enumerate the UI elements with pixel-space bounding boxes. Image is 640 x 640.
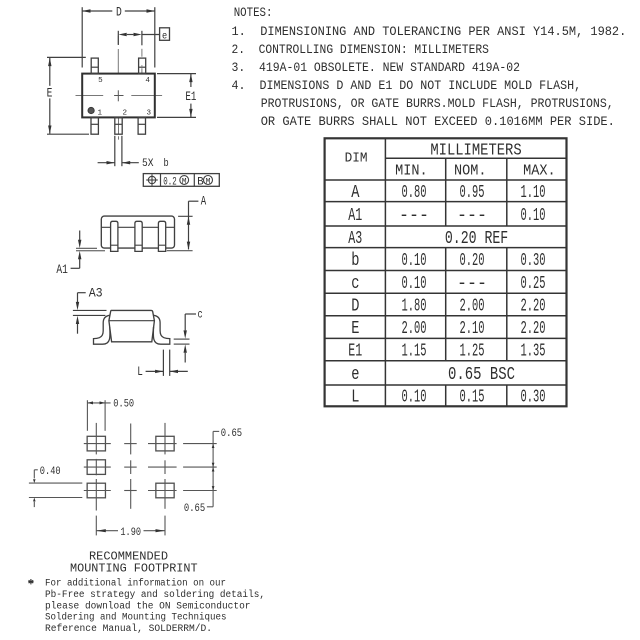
svg-text:1.25: 1.25 [460, 342, 485, 362]
svg-text:1.80: 1.80 [402, 297, 427, 317]
svg-text:---: --- [457, 206, 487, 226]
svg-text:1: 1 [98, 110, 103, 118]
svg-text:0.95: 0.95 [460, 183, 485, 203]
svg-text:3: 3 [147, 110, 152, 118]
svg-text:2.20: 2.20 [521, 297, 546, 317]
svg-text:2.00: 2.00 [402, 319, 427, 339]
svg-text:5: 5 [98, 77, 103, 85]
svg-text:DIM: DIM [345, 151, 368, 166]
svg-text:D: D [116, 6, 122, 20]
svg-text:NOTES:: NOTES: [234, 6, 273, 20]
svg-text:0.10: 0.10 [402, 251, 427, 271]
svg-text:0.65: 0.65 [221, 428, 242, 440]
svg-text:e: e [162, 30, 167, 42]
svg-text:e: e [351, 365, 359, 385]
svg-text:L: L [351, 388, 359, 408]
svg-text:2. CONTROLLING DIMENSION: MIL: 2. CONTROLLING DIMENSION: MILLIMETERS [232, 43, 489, 57]
svg-text:E: E [47, 87, 53, 101]
svg-text:0.10: 0.10 [402, 388, 427, 408]
svg-text:MOUNTING FOOTPRINT: MOUNTING FOOTPRINT [70, 562, 198, 576]
svg-text:Reference Manual, SOLDERRM/D.: Reference Manual, SOLDERRM/D. [45, 623, 212, 635]
svg-text:1.10: 1.10 [521, 183, 546, 203]
svg-text:c: c [351, 274, 359, 294]
svg-text:0.30: 0.30 [521, 388, 546, 408]
svg-text:A: A [201, 194, 207, 208]
svg-text:2.00: 2.00 [460, 297, 485, 317]
svg-text:0.65: 0.65 [184, 503, 205, 515]
svg-text:4: 4 [145, 77, 150, 85]
svg-text:A1: A1 [348, 206, 362, 226]
svg-text:E: E [351, 319, 359, 339]
svg-text:0.15: 0.15 [460, 388, 485, 408]
svg-text:b: b [351, 251, 359, 271]
svg-text:5X: 5X [142, 158, 154, 170]
svg-text:NOM.: NOM. [454, 162, 487, 179]
svg-text:Soldering and Mounting Techniq: Soldering and Mounting Techniques [45, 612, 227, 624]
svg-text:A1: A1 [56, 263, 68, 277]
svg-text:4. DIMENSIONS D AND E1 DO NOT: 4. DIMENSIONS D AND E1 DO NOT INCLUDE MO… [232, 79, 582, 93]
svg-text:0.30: 0.30 [521, 251, 546, 271]
svg-text:please download the ON Semicon: please download the ON Semiconductor [45, 600, 251, 612]
svg-text:1. DIMENSIONING AND TOLERANCI: 1. DIMENSIONING AND TOLERANCING PER ANSI… [232, 25, 627, 39]
svg-text:0.10: 0.10 [402, 274, 427, 294]
svg-text:c: c [198, 308, 203, 321]
svg-text:---: --- [399, 206, 429, 226]
svg-text:D: D [351, 297, 359, 317]
svg-text:0.65 BSC: 0.65 BSC [448, 365, 515, 385]
svg-text:0.25: 0.25 [521, 274, 546, 294]
svg-text:A: A [351, 183, 359, 203]
svg-text:B: B [197, 176, 204, 188]
svg-text:0.20 REF: 0.20 REF [445, 229, 508, 249]
svg-text:2.20: 2.20 [521, 319, 546, 339]
svg-text:M: M [182, 177, 187, 186]
svg-text:0.80: 0.80 [402, 183, 427, 203]
svg-text:0.40: 0.40 [40, 466, 61, 478]
svg-text:1.35: 1.35 [521, 342, 546, 362]
svg-text:---: --- [457, 274, 487, 294]
svg-text:1.90: 1.90 [120, 527, 141, 539]
svg-text:0.10: 0.10 [521, 206, 546, 226]
svg-text:MIN.: MIN. [395, 162, 428, 179]
svg-text:E1: E1 [348, 342, 362, 362]
svg-text:A3: A3 [89, 287, 103, 301]
svg-text:For additional information on: For additional information on our [45, 578, 226, 590]
svg-text:0.2: 0.2 [163, 176, 176, 188]
svg-text:Pb-Free strategy and soldering: Pb-Free strategy and soldering details, [45, 589, 265, 601]
svg-text:L: L [137, 365, 143, 379]
svg-text:MAX.: MAX. [523, 162, 556, 179]
svg-text:PROTRUSIONS, OR GATE BURRS.MOL: PROTRUSIONS, OR GATE BURRS.MOLD FLASH, P… [261, 97, 614, 111]
svg-text:M: M [206, 177, 211, 186]
svg-text:MILLIMETERS: MILLIMETERS [430, 140, 521, 159]
svg-text:2: 2 [123, 110, 128, 118]
svg-text:OR GATE BURRS SHALL NOT EXCEED: OR GATE BURRS SHALL NOT EXCEED 0.1016MM … [261, 115, 615, 129]
svg-text:E1: E1 [185, 90, 196, 104]
svg-text:2.10: 2.10 [460, 319, 485, 339]
svg-text:3. 419A-01 OBSOLETE. NEW STAN: 3. 419A-01 OBSOLETE. NEW STANDARD 419A-0… [232, 61, 521, 75]
svg-text:1.15: 1.15 [402, 342, 427, 362]
svg-text:0.50: 0.50 [113, 399, 134, 411]
svg-text:A3: A3 [348, 229, 362, 249]
svg-text:0.20: 0.20 [460, 251, 485, 271]
svg-text:b: b [164, 158, 169, 170]
